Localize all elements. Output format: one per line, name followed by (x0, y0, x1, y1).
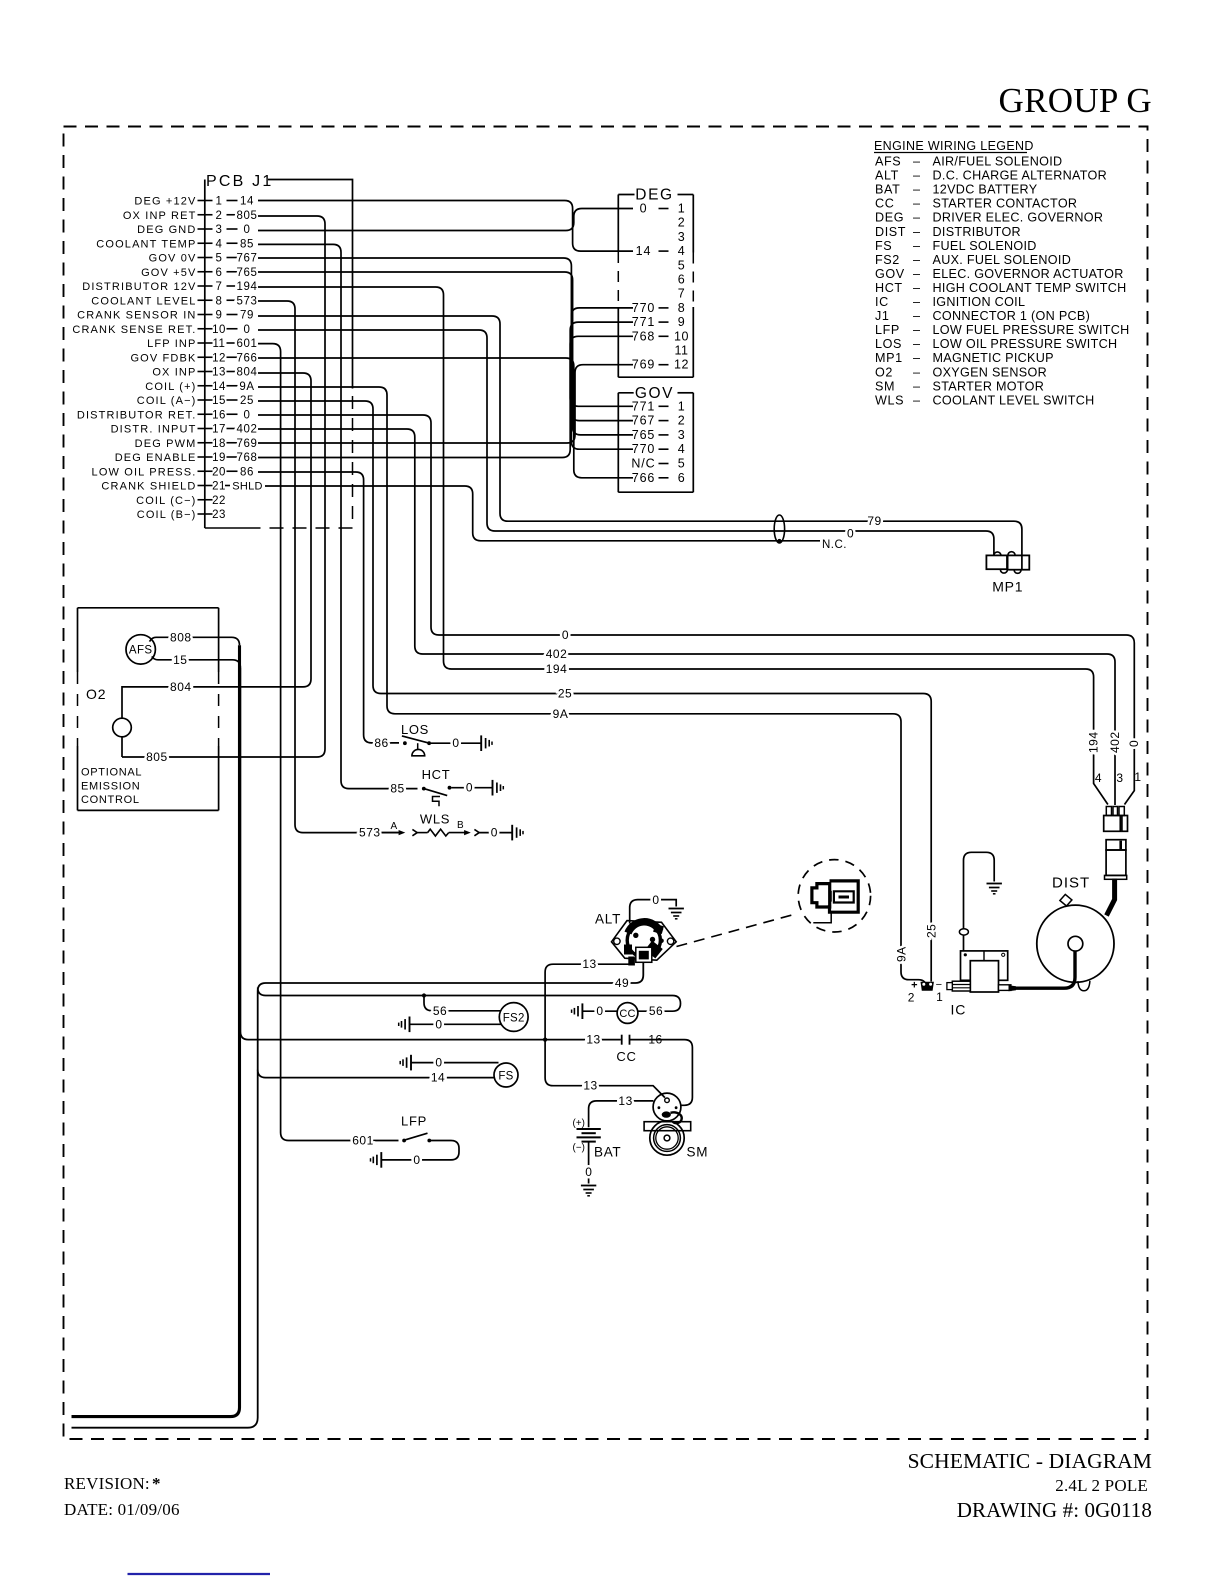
ALT bottom connector (636, 947, 652, 962)
svg-text:–: – (913, 379, 920, 393)
svg-text:79: 79 (867, 514, 881, 528)
svg-text:AFS: AFS (875, 155, 901, 169)
DIST connector upper (harness side) (1106, 807, 1111, 816)
inset tail lines (813, 912, 831, 923)
svg-text:DISTR. INPUT: DISTR. INPUT (111, 424, 197, 436)
harness 15/13 descent, branch to starter circuit (240, 668, 620, 1040)
svg-text:O2: O2 (875, 365, 893, 379)
svg-text:0: 0 (244, 324, 251, 336)
wire J1.6 (765) to GOV.3 (258, 272, 633, 435)
svg-text:PCB J1: PCB J1 (206, 173, 273, 190)
svg-text:13: 13 (582, 957, 596, 971)
WLS chevron 2 (474, 829, 479, 835)
O2 sensor bottom stub + wire 805 (121, 737, 123, 757)
DIST bottom tab (1078, 981, 1090, 991)
svg-text:14: 14 (212, 381, 226, 393)
svg-text:808: 808 (170, 630, 192, 644)
svg-text:3: 3 (1116, 771, 1123, 785)
svg-text:194: 194 (1087, 731, 1101, 753)
inset plug (812, 884, 830, 907)
svg-text:–: – (913, 183, 920, 197)
svg-text:DIST: DIST (875, 225, 906, 239)
svg-text:0: 0 (452, 736, 459, 750)
svg-text:13: 13 (618, 1094, 632, 1108)
wire J1.13 (804) to O2 sensor (122, 373, 311, 718)
svg-text:–: – (913, 225, 920, 239)
svg-text:ELEC. GOVERNOR ACTUATOR: ELEC. GOVERNOR ACTUATOR (933, 267, 1124, 281)
svg-text:GROUP G: GROUP G (999, 81, 1152, 120)
wire 56 harness branch to CC aux (258, 988, 681, 1012)
svg-text:ENGINE WIRING LEGEND: ENGINE WIRING LEGEND (874, 139, 1034, 153)
svg-text:N/C: N/C (631, 457, 655, 471)
svg-text:–: – (913, 169, 920, 183)
svg-text:4: 4 (216, 238, 223, 250)
svg-text:DRAWING #: 0G0118: DRAWING #: 0G0118 (957, 1498, 1152, 1522)
svg-text:–: – (913, 337, 920, 351)
svg-text:85: 85 (390, 782, 404, 796)
wire 49 ALT to harness + descent to lower-left (72, 962, 644, 1428)
svg-text:194: 194 (237, 281, 258, 293)
wire J1.1 (14) to DEG.4 (258, 201, 633, 252)
svg-text:CC: CC (875, 197, 894, 211)
svg-text:COOLANT LEVEL: COOLANT LEVEL (91, 295, 196, 307)
wire J1.20 (86) to LOS (258, 472, 399, 743)
wire J1.7 (194) to DIST connector pin 4 (258, 287, 1108, 805)
svg-text:0: 0 (652, 893, 659, 907)
svg-text:768: 768 (237, 452, 258, 464)
svg-text:86: 86 (374, 736, 388, 750)
switch LOS (403, 741, 407, 745)
PCB dashed boundary (352, 396, 354, 528)
MP1 bottom bumps (1000, 570, 1007, 574)
svg-text:–: – (913, 323, 920, 337)
distributor DIST body (1037, 905, 1114, 982)
svg-text:B: B (457, 820, 464, 831)
svg-text:CRANK SENSE RET.: CRANK SENSE RET. (72, 324, 196, 336)
shield junction dot (778, 539, 782, 543)
svg-text:25: 25 (558, 687, 572, 701)
wire J1.12 (766) to GOV.6 (258, 358, 633, 478)
svg-text:HCT: HCT (875, 281, 903, 295)
svg-text:CONNECTOR 1 (ON PCB): CONNECTOR 1 (ON PCB) (933, 309, 1091, 323)
DIST connector lower (pickup side) (1106, 840, 1126, 850)
svg-text:14: 14 (431, 1071, 445, 1085)
wire 15 AFS to harness (152, 656, 241, 667)
svg-text:LFP INP: LFP INP (147, 338, 196, 350)
wire 0 to CC (582, 1010, 617, 1012)
svg-text:DEG GND: DEG GND (137, 224, 196, 236)
svg-text:0: 0 (435, 1017, 442, 1031)
svg-text:771: 771 (632, 315, 656, 329)
magnetic pickup MP1 body (986, 555, 1007, 569)
blue footer rule (128, 1573, 271, 1575)
svg-text:0: 0 (244, 409, 251, 421)
IC primary connector (black) (921, 982, 934, 991)
svg-text:0: 0 (596, 1004, 603, 1018)
svg-text:AUX. FUEL SOLENOID: AUX. FUEL SOLENOID (933, 253, 1072, 267)
wire LFP right to 0/ground (381, 1141, 459, 1160)
svg-text:767: 767 (237, 253, 258, 265)
svg-text:DISTRIBUTOR 12V: DISTRIBUTOR 12V (82, 281, 196, 293)
wire WLS to ground (479, 832, 512, 834)
inset connector housing (830, 881, 859, 912)
svg-text:0: 0 (413, 1153, 420, 1167)
svg-text:767: 767 (632, 414, 656, 428)
J1 spine (204, 180, 206, 529)
wire IC 0 to ground (964, 852, 995, 950)
svg-text:15: 15 (212, 395, 226, 407)
svg-text:573: 573 (359, 826, 381, 840)
svg-text:GOV FDBK: GOV FDBK (130, 352, 196, 364)
WLS chevron (412, 829, 417, 835)
wire 16 to SM solenoid (630, 1040, 693, 1106)
svg-text:3: 3 (216, 224, 223, 236)
J1 top line to PCB edge (268, 180, 353, 389)
svg-text:3: 3 (678, 428, 685, 442)
svg-text:2.4L 2 POLE: 2.4L 2 POLE (1055, 1476, 1148, 1495)
svg-text:D.C. CHARGE ALTERNATOR: D.C. CHARGE ALTERNATOR (933, 169, 1108, 183)
svg-text:LOS: LOS (875, 337, 902, 351)
wire DEG.8 (770) to GOV.4 (571, 308, 633, 449)
wire J1.4 (85) to HCT (258, 244, 418, 788)
svg-text:SM: SM (687, 1145, 709, 1160)
svg-text:766: 766 (632, 471, 656, 485)
svg-text:LOW OIL PRESSURE SWITCH: LOW OIL PRESSURE SWITCH (933, 337, 1118, 351)
svg-text:0: 0 (435, 1056, 442, 1070)
svg-text:DEG PWM: DEG PWM (135, 438, 197, 450)
wire J1.10 (0) to MP1 (258, 330, 994, 555)
svg-text:N.C.: N.C. (822, 539, 847, 551)
svg-text:LOW FUEL PRESSURE SWITCH: LOW FUEL PRESSURE SWITCH (933, 323, 1130, 337)
svg-text:CRANK SHIELD: CRANK SHIELD (101, 481, 196, 493)
wire BAT negative to ground (588, 1142, 590, 1184)
svg-text:14: 14 (240, 196, 254, 208)
svg-text:–: – (913, 393, 920, 407)
wire 13 to BAT (589, 1101, 654, 1127)
svg-text:FS2: FS2 (503, 1013, 525, 1025)
svg-text:–: – (913, 239, 920, 253)
ground (HCT) (492, 780, 494, 796)
wire J1.19 (768) to DEG.10 (258, 336, 633, 457)
svg-text:10: 10 (674, 329, 689, 343)
svg-text:0: 0 (640, 202, 648, 216)
svg-text:MP1: MP1 (875, 351, 903, 365)
svg-text:79: 79 (240, 310, 254, 322)
svg-text:18: 18 (212, 438, 226, 450)
svg-text:WLS: WLS (875, 393, 904, 407)
svg-text:–: – (913, 253, 920, 267)
ground (CC coil) (581, 1003, 583, 1019)
svg-text:STARTER MOTOR: STARTER MOTOR (933, 379, 1045, 393)
svg-text:CRANK SENSOR IN: CRANK SENSOR IN (77, 310, 196, 322)
svg-text:0: 0 (244, 224, 251, 236)
svg-text:0: 0 (491, 826, 498, 840)
svg-text:FS: FS (498, 1071, 513, 1083)
svg-text:WLS: WLS (420, 812, 450, 827)
svg-text:601: 601 (352, 1134, 374, 1148)
detail pointer dashed line (677, 914, 798, 947)
svg-text:SM: SM (875, 379, 895, 393)
ground (ALT) (669, 908, 684, 910)
svg-text:DEG: DEG (875, 211, 904, 225)
svg-text:–: – (913, 267, 920, 281)
svg-text:GOV: GOV (875, 267, 905, 281)
svg-text:FS2: FS2 (875, 253, 900, 267)
svg-text:DATE: 01/09/06: DATE: 01/09/06 (64, 1500, 180, 1519)
svg-text:BAT: BAT (594, 1145, 621, 1160)
svg-text:HCT: HCT (422, 767, 451, 782)
svg-text:766: 766 (237, 352, 258, 364)
svg-text:SHLD: SHLD (232, 481, 263, 493)
svg-text:13: 13 (212, 367, 226, 379)
wire J1.21 (SHLD) to N.C. (265, 486, 820, 541)
IC wire bead (959, 929, 968, 935)
svg-text:5: 5 (216, 253, 223, 265)
wire 13 vertical distribution (545, 964, 665, 1097)
svg-text:1: 1 (216, 196, 223, 208)
svg-text:REVISION:: REVISION: (64, 1474, 154, 1493)
WLS resistive element (417, 832, 427, 834)
svg-text:20: 20 (212, 466, 226, 478)
svg-text:STARTER CONTACTOR: STARTER CONTACTOR (933, 197, 1078, 211)
DIST pickup cable (thick) (1107, 879, 1115, 916)
O2 emission box (78, 607, 219, 609)
svg-text:402: 402 (546, 647, 568, 661)
wire J1.3 (0) to DEG.1 (258, 209, 633, 231)
solenoid FS (494, 1063, 518, 1087)
svg-text:(+): (+) (573, 1118, 586, 1129)
svg-text:COIL (+): COIL (+) (145, 381, 196, 393)
svg-text:15: 15 (173, 653, 187, 667)
wire DEG.9 (771) to GOV.1 (570, 322, 633, 406)
svg-text:*: * (152, 1474, 161, 1493)
svg-text:56: 56 (433, 1004, 447, 1018)
wire HCT to ground (451, 787, 492, 789)
svg-text:9: 9 (216, 310, 223, 322)
svg-text:770: 770 (632, 442, 656, 456)
svg-text:COIL (A−): COIL (A−) (137, 395, 197, 407)
wire 808 AFS to harness (150, 637, 240, 645)
svg-text:769: 769 (632, 358, 656, 372)
svg-text:10: 10 (212, 324, 226, 336)
svg-text:601: 601 (237, 338, 258, 350)
contactor CC contact bars (621, 1035, 623, 1045)
svg-text:LFP: LFP (875, 323, 900, 337)
wire 14 harness branch to FS (258, 1070, 495, 1078)
svg-text:16: 16 (212, 409, 226, 421)
svg-text:ALT: ALT (875, 169, 899, 183)
wire J1.9 (79) to MP1 (258, 316, 1022, 569)
svg-text:–: – (913, 155, 920, 169)
svg-text:805: 805 (237, 210, 258, 222)
svg-text:AFS: AFS (129, 645, 153, 657)
wire 0 to FS (411, 1062, 499, 1064)
svg-text:0: 0 (562, 628, 569, 642)
svg-text:FS: FS (875, 239, 892, 253)
svg-text:765: 765 (237, 267, 258, 279)
svg-text:DIST: DIST (1052, 875, 1090, 892)
svg-text:LOW OIL PRESS.: LOW OIL PRESS. (92, 466, 197, 478)
svg-text:7: 7 (678, 287, 685, 301)
svg-text:4: 4 (678, 244, 685, 258)
svg-text:6: 6 (678, 471, 685, 485)
svg-text:CONTROL: CONTROL (81, 794, 140, 806)
svg-text:DEG ENABLE: DEG ENABLE (115, 452, 197, 464)
svg-text:DRIVER ELEC. GOVERNOR: DRIVER ELEC. GOVERNOR (933, 211, 1104, 225)
svg-text:0: 0 (847, 527, 854, 541)
svg-text:O2: O2 (86, 686, 106, 702)
MP1 top bumps (994, 552, 1001, 556)
svg-text:MAGNETIC PICKUP: MAGNETIC PICKUP (933, 351, 1054, 365)
svg-text:0: 0 (466, 781, 473, 795)
detail circle (connector inset) (798, 860, 870, 932)
SM bracket (644, 1122, 691, 1131)
svg-text:IC: IC (951, 1002, 967, 1018)
svg-text:–: – (913, 295, 920, 309)
connector DEG box (617, 195, 619, 253)
svg-text:MP1: MP1 (992, 579, 1023, 595)
ground (FS) (410, 1055, 412, 1071)
svg-text:17: 17 (212, 424, 226, 436)
svg-text:0: 0 (1127, 740, 1141, 747)
ground (IC) (987, 883, 1002, 885)
svg-text:85: 85 (240, 238, 254, 250)
svg-text:HIGH COOLANT TEMP SWITCH: HIGH COOLANT TEMP SWITCH (933, 281, 1127, 295)
svg-text:DEG +12V: DEG +12V (134, 196, 196, 208)
svg-text:3: 3 (678, 230, 685, 244)
svg-text:7: 7 (216, 281, 223, 293)
svg-text:402: 402 (1108, 731, 1122, 753)
svg-text:56: 56 (649, 1004, 663, 1018)
svg-text:771: 771 (632, 399, 656, 413)
wire 0 to FS2 (410, 1023, 502, 1025)
svg-text:25: 25 (925, 924, 939, 938)
svg-text:22: 22 (212, 495, 226, 507)
SM solenoid cable hook (671, 1112, 682, 1123)
svg-text:49: 49 (615, 976, 629, 990)
svg-text:OX INP: OX INP (152, 367, 196, 379)
svg-text:IGNITION COIL: IGNITION COIL (933, 295, 1026, 309)
svg-text:12: 12 (674, 358, 689, 372)
svg-text:9A: 9A (553, 707, 569, 721)
svg-text:5: 5 (678, 258, 685, 272)
svg-text:13: 13 (583, 1079, 597, 1093)
svg-text:5: 5 (678, 457, 685, 471)
IC HT terminal (999, 985, 1011, 991)
svg-text:–: – (913, 211, 920, 225)
svg-text:9A: 9A (894, 946, 908, 962)
svg-text:23: 23 (212, 509, 226, 521)
svg-text:1: 1 (1134, 770, 1141, 784)
svg-text:OPTIONAL: OPTIONAL (81, 767, 142, 779)
svg-text:GOV 0V: GOV 0V (149, 253, 197, 265)
svg-text:8: 8 (216, 295, 223, 307)
IC left low-voltage connector (952, 981, 970, 991)
svg-text:–: – (913, 365, 920, 379)
HT cable IC to DIST (1011, 951, 1075, 989)
svg-text:–: – (913, 281, 920, 295)
ground (WLS) (511, 825, 513, 841)
svg-text:13: 13 (586, 1033, 600, 1047)
svg-text:8: 8 (678, 301, 685, 315)
ignition coil IC body (961, 951, 1008, 980)
switch LFP (402, 1139, 406, 1143)
solenoid FS2 (499, 1003, 528, 1032)
wire 56 stub to FS2 (424, 996, 501, 1011)
svg-text:LOS: LOS (401, 722, 429, 737)
svg-text:OXYGEN SENSOR: OXYGEN SENSOR (933, 365, 1047, 379)
svg-text:12VDC BATTERY: 12VDC BATTERY (933, 183, 1038, 197)
wire J1.16 (0) to DIST connector pin 1 (258, 415, 1134, 805)
svg-text:765: 765 (632, 428, 656, 442)
svg-text:768: 768 (632, 329, 656, 343)
svg-text:9A: 9A (239, 381, 254, 393)
svg-text:21: 21 (212, 481, 226, 493)
svg-text:25: 25 (240, 395, 254, 407)
svg-text:COIL (B−): COIL (B−) (137, 509, 197, 521)
svg-text:(−): (−) (573, 1142, 586, 1153)
DIST cap notch (1060, 894, 1072, 906)
wire J1.8 (573) to WLS (258, 301, 399, 833)
svg-text:COIL (C−): COIL (C−) (136, 495, 196, 507)
connector GOV box (617, 393, 619, 492)
alternator ALT body (612, 921, 677, 961)
wire ALT to ground (0) (630, 900, 677, 924)
wire J1.11 (601) to LFP (258, 344, 399, 1141)
wire J1.5 (767) to GOV.2 (258, 258, 633, 421)
svg-text:DISTRIBUTOR RET.: DISTRIBUTOR RET. (77, 409, 197, 421)
wire J1.18 (769) to DEG.12 (258, 365, 633, 443)
svg-text:804: 804 (170, 680, 192, 694)
ground (LFP) (380, 1152, 382, 1168)
svg-text:CC: CC (616, 1049, 636, 1064)
svg-text:–: – (913, 309, 920, 323)
svg-text:BAT: BAT (875, 183, 900, 197)
svg-text:805: 805 (146, 750, 168, 764)
svg-text:ALT: ALT (595, 912, 621, 927)
starter SM solenoid (653, 1093, 681, 1121)
junction dot 13 (543, 1038, 547, 1042)
svg-text:OX INP RET: OX INP RET (123, 210, 197, 222)
svg-text:573: 573 (237, 295, 258, 307)
svg-text:1: 1 (936, 990, 943, 1004)
svg-text:DISTRIBUTOR: DISTRIBUTOR (933, 225, 1021, 239)
svg-text:1: 1 (678, 399, 685, 413)
ground (BAT) (581, 1185, 596, 1187)
wire J1.14 (9A) to IC + (258, 387, 926, 988)
wire LOS to ground (431, 742, 481, 744)
svg-text:2: 2 (908, 991, 915, 1005)
svg-text:2: 2 (678, 414, 685, 428)
svg-text:2: 2 (216, 210, 223, 222)
wire J1.17 (402) to DIST connector pin 3 (258, 429, 1115, 805)
svg-text:4: 4 (1095, 771, 1102, 785)
wire J1.2 (805) to O2 sensor (122, 216, 325, 757)
svg-text:2: 2 (678, 216, 685, 230)
junction dot 56 (422, 993, 426, 997)
cable shield symbol (774, 515, 784, 543)
svg-text:804: 804 (237, 367, 258, 379)
svg-text:0: 0 (585, 1165, 592, 1179)
svg-text:770: 770 (632, 301, 656, 315)
svg-text:AIR/FUEL SOLENOID: AIR/FUEL SOLENOID (933, 155, 1063, 169)
svg-text:SCHEMATIC - DIAGRAM: SCHEMATIC - DIAGRAM (908, 1449, 1152, 1473)
svg-text:11: 11 (213, 338, 226, 350)
svg-text:COOLANT TEMP: COOLANT TEMP (96, 238, 196, 250)
svg-text:FUEL SOLENOID: FUEL SOLENOID (933, 239, 1037, 253)
battery BAT plates (577, 1128, 601, 1130)
svg-text:9: 9 (678, 315, 685, 329)
